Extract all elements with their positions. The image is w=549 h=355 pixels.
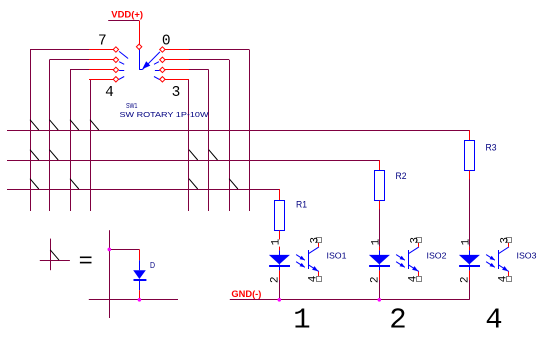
svg-text:1: 1 xyxy=(270,238,282,245)
svg-text:2: 2 xyxy=(389,304,406,337)
svg-text:3: 3 xyxy=(310,237,322,244)
svg-text:4: 4 xyxy=(498,275,510,282)
svg-text:ISO2: ISO2 xyxy=(427,251,447,261)
svg-text:3: 3 xyxy=(500,237,512,244)
svg-text:0: 0 xyxy=(162,34,171,50)
svg-text:4: 4 xyxy=(408,275,420,282)
svg-text:R3: R3 xyxy=(486,142,497,153)
svg-text:4: 4 xyxy=(105,85,114,101)
svg-text:2: 2 xyxy=(459,276,471,283)
svg-text:2: 2 xyxy=(369,276,381,283)
svg-text:1: 1 xyxy=(460,238,472,245)
svg-text:1: 1 xyxy=(370,238,382,245)
svg-text:4: 4 xyxy=(485,304,502,337)
svg-text:SW ROTARY 1P-10W: SW ROTARY 1P-10W xyxy=(120,112,209,119)
svg-text:GND(-): GND(-) xyxy=(231,289,261,300)
svg-text:3: 3 xyxy=(410,237,422,244)
svg-text:2: 2 xyxy=(269,276,281,283)
svg-text:D: D xyxy=(150,260,155,270)
svg-text:ISO1: ISO1 xyxy=(327,251,347,261)
svg-text:3: 3 xyxy=(172,85,181,101)
svg-text:1: 1 xyxy=(293,304,310,337)
svg-text:4: 4 xyxy=(308,275,320,282)
svg-text:VDD(+): VDD(+) xyxy=(111,9,143,20)
svg-text:R1: R1 xyxy=(296,199,307,210)
svg-text:SW1: SW1 xyxy=(126,101,138,110)
svg-text:ISO3: ISO3 xyxy=(517,251,537,261)
svg-text:7: 7 xyxy=(98,34,107,50)
svg-text:R2: R2 xyxy=(396,171,407,182)
